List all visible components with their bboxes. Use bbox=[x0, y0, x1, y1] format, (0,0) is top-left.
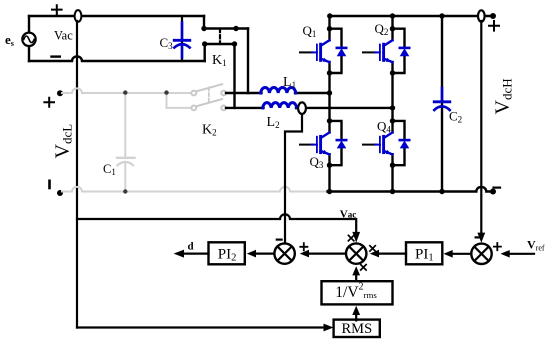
capacitor C1 gray vertical bbox=[124, 93, 126, 158]
junction dot L2 to right leg bbox=[390, 105, 395, 110]
node: vac sense port ellipse bbox=[75, 10, 82, 22]
summer S2 (right) bbox=[471, 244, 491, 264]
label - (VdcH summer) bbox=[476, 236, 481, 238]
label x (M1 bottom) bbox=[361, 265, 366, 270]
wire: gray bottom with hops bbox=[62, 187, 328, 192]
wire: VdcH sense vertical bbox=[480, 21, 482, 234]
wire: right leg lower segment bbox=[391, 165, 393, 191]
gray V_dcL network bbox=[62, 88, 328, 191]
node dot (204.7,44) bbox=[202, 41, 207, 46]
label + (V_dcL) bbox=[44, 98, 54, 107]
arrowhead vac into multiplier bbox=[352, 232, 360, 243]
capacitor C1 plates bbox=[117, 157, 135, 159]
node: VdcH sense port ellipse bbox=[478, 10, 485, 21]
terminal dot output + bbox=[490, 13, 496, 19]
box RMS bbox=[334, 320, 380, 337]
node dot (204,28.5) bbox=[201, 26, 206, 31]
wire+arrow: M1 to S1 bbox=[309, 253, 347, 255]
wire: left leg lower segment bbox=[328, 165, 330, 191]
transistor Q3 bbox=[300, 118, 346, 168]
wire: source loop bottom rail with hop over sense line bbox=[29, 56, 205, 61]
wire+arrow: 1/V2rms to M1 bbox=[355, 275, 357, 281]
wire+arrow: S2 to PI1 bbox=[452, 253, 471, 255]
label + (source top) bbox=[52, 5, 62, 14]
label - (output) bbox=[494, 187, 501, 189]
wire: vac sense bottom feed to RMS bbox=[77, 326, 324, 328]
multiplier M1 bbox=[346, 243, 366, 263]
switch K1 dashed bbox=[219, 29, 221, 44]
capacitor C2 bbox=[434, 16, 450, 192]
junction dot gray C1 bottom bbox=[123, 189, 127, 193]
wire: left leg mid segment bbox=[328, 73, 330, 121]
wire: vertical from K1 lower to L2 bbox=[233, 44, 235, 108]
node dots on rails bbox=[327, 13, 332, 18]
terminal dot output - bbox=[490, 189, 496, 195]
node dot (236,28.5) bbox=[233, 26, 238, 31]
wire: right leg upper segment bbox=[391, 16, 393, 29]
switch K2 gang dashed link bbox=[208, 88, 210, 104]
wire: K1 area corner from top rail bbox=[203, 16, 205, 29]
transistor Q1 bbox=[300, 26, 346, 76]
switch K2 lower: contacts and blade bbox=[191, 99, 226, 110]
arrowhead VdcH into summer bbox=[477, 233, 485, 243]
wire+arrow: S1 to PI2 bbox=[256, 253, 275, 255]
switch K2 upper: contacts and blade bbox=[191, 84, 226, 95]
node dot (234.5,44) bbox=[232, 41, 237, 46]
wire: L1 line bbox=[226, 92, 330, 94]
svg-text:d: d bbox=[188, 240, 194, 252]
wire: K1 lower line bbox=[205, 43, 235, 45]
label x (M1 right) bbox=[370, 246, 375, 251]
bridge bottom rail with hop over VdcH sense bbox=[328, 187, 494, 192]
transistor Q4 bbox=[363, 118, 409, 168]
wire: left leg upper segment bbox=[328, 16, 330, 29]
box PI2 bbox=[209, 242, 245, 264]
svg-text:Vac: Vac bbox=[340, 209, 356, 221]
wire+arrow: Vref into S2 bbox=[509, 253, 534, 255]
svg-text:Vac: Vac bbox=[54, 29, 73, 43]
node: current sense ellipse on L2 bbox=[298, 102, 306, 114]
wire: vac horizontal line with hop bbox=[77, 214, 356, 231]
summer S1 (left) bbox=[274, 243, 294, 263]
bridge top rail bbox=[330, 15, 494, 17]
wire+arrow: PI2 to d output bbox=[184, 253, 209, 255]
wire: source loop left vertical bbox=[28, 16, 30, 61]
box PI1 bbox=[406, 242, 442, 264]
junction dot L1 to left leg bbox=[327, 90, 332, 95]
junction dot gray (166.5,93) bbox=[164, 90, 168, 94]
arrowhead into RMS bbox=[324, 324, 334, 332]
inductor L2 bbox=[263, 103, 297, 108]
wire: vac sense vertical from port down bbox=[76, 21, 78, 328]
transistor Q2 bbox=[363, 26, 409, 76]
junction dot gray (125.3,93) bbox=[123, 90, 127, 94]
terminal dot V_dcL - bbox=[57, 190, 63, 196]
label x (M1 top) bbox=[348, 235, 353, 240]
wire: vertical from K1 upper to L1 bbox=[247, 29, 249, 94]
wire: gray branch down to lower switch bbox=[167, 93, 192, 108]
inductor L1 bbox=[261, 87, 296, 93]
AC source e_s bbox=[22, 33, 35, 46]
svg-text:RMS: RMS bbox=[342, 321, 373, 337]
label + (S1) bbox=[300, 243, 307, 250]
wire: K1 lower line to bottom rail bbox=[203, 44, 205, 61]
wire: gray top with hop over sense line bbox=[62, 88, 192, 93]
wire: sense from ellipse down and left bbox=[285, 114, 302, 243]
label - (V_dcL, rotated) bbox=[48, 181, 51, 188]
label - (source bottom) bbox=[52, 55, 60, 57]
wire: source loop top rail bbox=[29, 15, 204, 17]
wire+arrow: PI1 to M1 bbox=[379, 253, 407, 255]
wire+arrow: RMS to 1/V2rms bbox=[355, 315, 357, 321]
wire: K1 upper line bbox=[204, 27, 248, 29]
terminal dot V_dcL + bbox=[57, 90, 63, 96]
wire: L2 line bbox=[226, 107, 393, 109]
box 1/V2rms bbox=[322, 281, 393, 304]
capacitor C3 bbox=[174, 16, 190, 61]
wire: right leg mid segment bbox=[391, 73, 393, 121]
label + (output) bbox=[489, 21, 499, 31]
label - (S1) bbox=[277, 239, 282, 241]
label + (S2) bbox=[494, 243, 501, 250]
